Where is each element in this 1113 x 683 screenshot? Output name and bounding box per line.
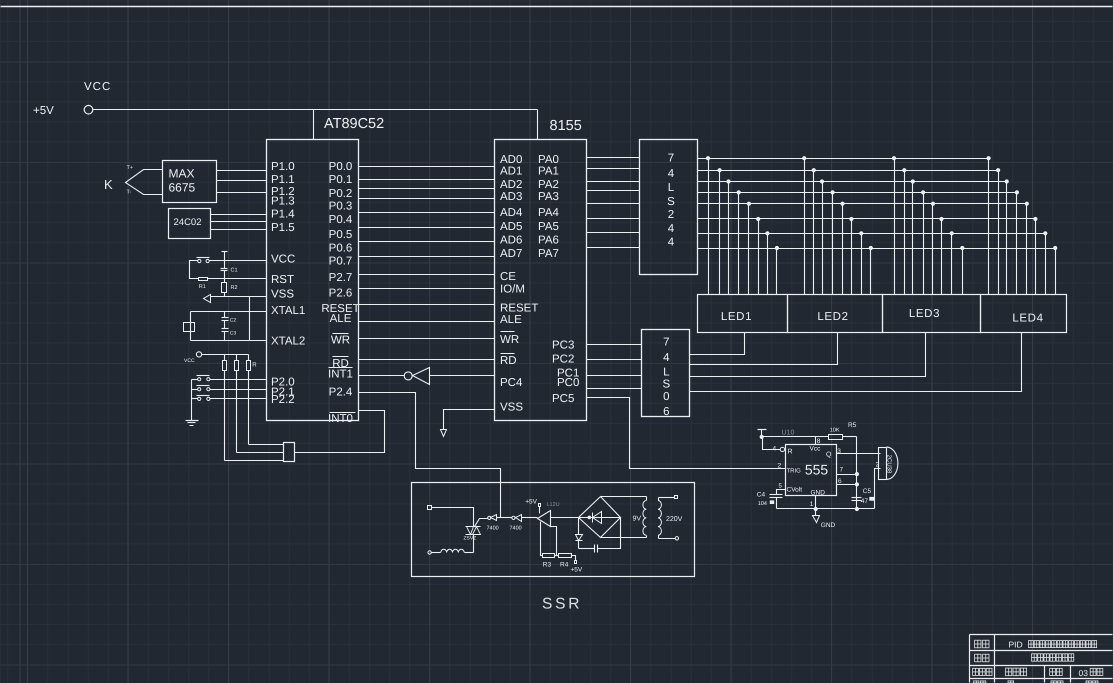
wire R1 to RST: [208, 278, 267, 280]
terminal SSR in1: [428, 506, 432, 510]
svg-text:VCC: VCC: [271, 254, 295, 266]
wire inv2 to opto: [522, 517, 538, 519]
wire VSS pin: [211, 296, 267, 298]
capacitor C3: [224, 321, 226, 329]
capacitor C4: [770, 494, 783, 496]
svg-text:R1: R1: [199, 284, 206, 290]
wire in1 to triac: [432, 508, 474, 527]
svg-text:LED4: LED4: [1012, 312, 1043, 324]
resistor R1: [199, 278, 208, 281]
svg-text:+5V: +5V: [571, 567, 583, 574]
svg-text:4: 4: [663, 352, 670, 364]
wire segment drops row 6: [768, 234, 1046, 295]
wire opto to bridge: [551, 517, 579, 519]
arrow symbol VSS: [204, 295, 211, 303]
capacitor C5: [852, 497, 862, 499]
svg-text:P1.5: P1.5: [271, 222, 295, 234]
svg-text:ALE: ALE: [500, 314, 522, 326]
label 74LS244 vertical: [667, 153, 675, 249]
resistor network R 3x: [223, 361, 251, 371]
svg-text:K: K: [104, 177, 113, 192]
wire P2.6 to IO/M: [359, 288, 495, 290]
svg-text:PA3: PA3: [538, 191, 559, 203]
title row2 label: [975, 654, 981, 662]
title row2 value: [1032, 654, 1074, 661]
buzzer LS1 2CU38: [879, 448, 887, 480]
thermocouple junction symbol: [126, 170, 163, 195]
power VCC tee symbol: [222, 251, 228, 253]
terminal SSR in2: [428, 551, 431, 554]
svg-text:AD1: AD1: [500, 166, 522, 178]
svg-text:AD6: AD6: [500, 235, 522, 247]
pin labels 8155 left column: [500, 154, 538, 414]
terminal 220V bottom: [675, 537, 678, 540]
wire XTAL2 pin: [191, 340, 267, 342]
wire 24C02 to P1.4: [211, 221, 267, 223]
svg-text:PC5: PC5: [552, 393, 574, 405]
wire 74LS06 to LED4 common: [690, 333, 1022, 392]
svg-text:RST: RST: [271, 274, 294, 286]
terminal +5V circle: [84, 105, 93, 114]
wire MAX6675 to P1.1: [217, 180, 267, 182]
svg-text:AD4: AD4: [500, 207, 523, 219]
svg-text:P1.4: P1.4: [271, 209, 295, 221]
wire P0 bus to AD0-AD7: [359, 167, 495, 257]
wire 74LS06 to LED2 common: [690, 333, 838, 365]
wire P2.2 pin: [210, 398, 267, 400]
switch S1 reset: [198, 259, 201, 262]
svg-text:PID: PID: [1009, 640, 1023, 650]
svg-text:PA7: PA7: [538, 248, 559, 260]
switch S3: [198, 388, 201, 391]
svg-text:GND: GND: [821, 522, 836, 529]
wire 74LS244 output row 1: [698, 170, 999, 172]
svg-text:PA4: PA4: [538, 207, 559, 219]
wire WR: [359, 338, 495, 340]
wire gnd rail 555: [777, 508, 875, 510]
svg-text:7: 7: [840, 467, 844, 474]
sensor U2 MAX6675 body: [163, 161, 217, 203]
svg-text:PC2: PC2: [552, 353, 574, 365]
junction dot 555 vcc: [760, 435, 764, 439]
svg-text:+5V: +5V: [525, 499, 537, 506]
eeprom U3 24C02 body: [169, 209, 211, 239]
connector J1 box: [284, 443, 295, 462]
capacitor C2: [224, 312, 226, 318]
svg-text:4: 4: [773, 446, 777, 453]
svg-text:555: 555: [805, 462, 829, 478]
svg-text:INT0: INT0: [328, 413, 353, 425]
diode inside bridge: [593, 512, 602, 524]
title row1 label: [975, 640, 981, 648]
capacitor C6: [594, 545, 596, 553]
svg-text:PA1: PA1: [538, 166, 559, 178]
svg-text:U10: U10: [782, 430, 795, 437]
svg-text:R: R: [788, 449, 793, 456]
svg-text:P0.6: P0.6: [329, 243, 353, 255]
svg-text:PC4: PC4: [500, 377, 523, 389]
wire bridge top to transformer: [601, 496, 647, 498]
display LED4 box: [981, 295, 1067, 333]
wire drops to pullups: [225, 355, 249, 361]
svg-text:T-: T-: [127, 190, 132, 196]
svg-text:SSR: SSR: [542, 596, 582, 613]
svg-text:PA6: PA6: [538, 235, 559, 247]
svg-text:AD5: AD5: [500, 221, 522, 233]
svg-text:R4: R4: [560, 562, 569, 569]
MCU U1 AT89C52 body: [267, 140, 359, 421]
svg-text:+5V: +5V: [33, 105, 54, 117]
svg-text:03: 03: [1079, 668, 1089, 678]
svg-text:VSS: VSS: [500, 402, 523, 414]
svg-text:T+: T+: [127, 165, 134, 171]
triac Q1: [466, 526, 481, 528]
wire segment drops row 4: [749, 204, 1027, 295]
svg-text:RD: RD: [500, 355, 517, 367]
power tee 555: [758, 429, 767, 431]
IO chip U5 8155 body: [495, 140, 587, 421]
svg-text:10K: 10K: [830, 428, 840, 434]
svg-text:C2: C2: [230, 318, 237, 324]
svg-text:VCC: VCC: [184, 358, 195, 364]
wire segment drops row 3: [739, 193, 1017, 295]
svg-text:2: 2: [668, 209, 674, 221]
svg-text:C5: C5: [863, 488, 872, 495]
svg-text:P2.7: P2.7: [329, 272, 353, 284]
svg-text:MAX: MAX: [169, 167, 195, 181]
wire Q output pin 3: [837, 453, 881, 455]
svg-text:RESET: RESET: [500, 302, 538, 314]
wire CVolt to C4: [777, 490, 786, 495]
svg-text:1: 1: [810, 501, 814, 508]
svg-text:7400: 7400: [510, 526, 522, 532]
svg-text:INT1: INT1: [328, 368, 353, 380]
wire secondary bottom: [659, 538, 676, 540]
wire 74LS244 output row 2: [698, 181, 1007, 183]
wire INT0 to connector: [295, 411, 385, 453]
svg-text:S: S: [667, 196, 675, 208]
svg-text:AD3: AD3: [500, 191, 522, 203]
wire P2.4 to SSR: [359, 393, 501, 518]
svg-text:CE: CE: [500, 271, 516, 283]
wire opto to R3: [541, 522, 543, 556]
svg-text:PA2: PA2: [538, 179, 559, 191]
svg-text:CVolt: CVolt: [787, 486, 803, 493]
svg-text:AD7: AD7: [500, 248, 522, 260]
capacitor C1: [224, 261, 226, 269]
opto transistor triangle: [538, 511, 551, 527]
svg-text:P1.0: P1.0: [271, 161, 295, 173]
wire VSS junction down: [249, 297, 251, 341]
inverter U9 7400: [512, 516, 515, 519]
svg-text:3: 3: [837, 448, 841, 455]
svg-text:R3: R3: [543, 562, 552, 569]
wire triac gate: [475, 519, 488, 527]
wire segment drops row 7: [777, 249, 1056, 295]
resistor R3: [543, 554, 555, 558]
wire segment drops row 2: [729, 182, 1007, 295]
svg-text:L: L: [668, 182, 675, 194]
svg-text:PA5: PA5: [538, 221, 559, 233]
wire buzzer return: [875, 469, 881, 509]
wire segment drops row 5: [759, 219, 1036, 295]
crystal Y1: [190, 312, 192, 341]
svg-text:LED3: LED3: [909, 308, 940, 320]
svg-text:220V: 220V: [666, 516, 683, 523]
svg-text:5: 5: [779, 482, 783, 489]
wire 74LS244 output row 7: [698, 248, 1056, 250]
svg-text:4: 4: [668, 168, 675, 180]
wire ALE: [359, 321, 495, 323]
svg-text:TRIG: TRIG: [787, 467, 802, 474]
wire RD: [359, 359, 495, 361]
svg-text:P1.3: P1.3: [271, 196, 295, 208]
drawing frame top border: [1, 6, 1113, 8]
switch S4: [198, 397, 201, 400]
svg-text:P0.3: P0.3: [329, 201, 353, 213]
wire VCC pin: [210, 260, 267, 262]
pin labels AT89C52 left column: [271, 161, 305, 406]
ground arrow 8155 VSS: [444, 410, 495, 430]
wire R4 to +5V: [572, 556, 576, 561]
svg-text:P2.2: P2.2: [271, 394, 295, 406]
svg-text:C1: C1: [231, 267, 238, 273]
svg-text:8: 8: [817, 438, 821, 445]
wire bridge bottom to transformer: [601, 537, 647, 539]
wire VCC drop to AT89C52: [313, 110, 315, 140]
wire 74LS244 output row 4: [698, 203, 1027, 205]
wire pullup rail: [202, 354, 249, 356]
title row3 label2: [1050, 668, 1056, 675]
svg-text:4: 4: [668, 223, 675, 235]
wire 74LS06 to LED1 common: [690, 333, 745, 355]
svg-text:C4: C4: [757, 492, 766, 499]
resistor R5 10K: [829, 435, 843, 440]
transformer T1 primary: [646, 497, 648, 501]
terminal 220V top: [675, 496, 678, 499]
svg-text:XTAL1: XTAL1: [271, 305, 305, 317]
display LED3 box: [883, 295, 981, 333]
wire 74LS244 output row 3: [698, 192, 1017, 194]
svg-text:4: 4: [668, 236, 675, 248]
inverter U4 on INT1: [359, 375, 405, 377]
pin 4 bubble: [780, 447, 784, 451]
junction dots row 1: [718, 168, 1001, 172]
diode D5 freewheel: [578, 518, 580, 535]
wire switches common: [192, 379, 198, 381]
svg-text:R: R: [252, 362, 257, 369]
label 74LS06 vertical: [662, 337, 670, 419]
svg-text:PA0: PA0: [538, 154, 559, 166]
svg-text:GND: GND: [811, 490, 826, 497]
inverter U8 7400: [488, 516, 491, 519]
wire reset branch: [763, 437, 781, 450]
junction dots row 2: [726, 179, 1008, 183]
wire 555 vcc rail: [762, 436, 829, 438]
junction dots row 7: [775, 246, 1057, 250]
svg-text:7: 7: [663, 337, 669, 349]
resistor R2: [224, 279, 226, 283]
display LED1 box: [698, 295, 788, 333]
svg-text:L12U: L12U: [547, 502, 560, 508]
svg-text:WR: WR: [331, 335, 350, 347]
timer U10 555 body: [786, 445, 837, 496]
svg-text:P0.5: P0.5: [329, 229, 353, 241]
title row3 label: [973, 668, 979, 675]
svg-text:XTAL2: XTAL2: [271, 336, 305, 348]
svg-text:AD2: AD2: [500, 179, 522, 191]
junction dots row 3: [737, 190, 1019, 194]
wire pin 7: [837, 474, 857, 476]
svg-text:L: L: [663, 367, 670, 379]
transformer T1 secondary: [658, 498, 660, 501]
ground symbol 555: [815, 509, 817, 516]
wire pullup verticals down: [224, 371, 226, 461]
wire MAX6675 to P1.0: [217, 170, 267, 172]
inductor L1 coil: [432, 552, 441, 554]
title row4 partial: [974, 681, 979, 683]
wire 74LS244 output row 5: [698, 218, 1036, 220]
wire segment drops row 0: [709, 159, 989, 295]
resistor R4: [559, 554, 572, 558]
wire switch to R1: [190, 261, 199, 279]
wire P2.0 pin: [210, 379, 267, 381]
svg-text:VCC: VCC: [84, 81, 111, 93]
wire XTAL1 pin: [191, 311, 267, 313]
svg-text:0: 0: [663, 391, 669, 403]
wire 24C02 to P1.5: [211, 229, 267, 231]
svg-text:VSS: VSS: [271, 289, 294, 301]
ground symbol switches: [186, 420, 199, 422]
wire VCC drop to 8155: [537, 110, 539, 140]
svg-text:C3: C3: [230, 331, 237, 337]
svg-text:AD0: AD0: [500, 154, 522, 166]
svg-text:104: 104: [758, 501, 767, 507]
svg-text:P2.6: P2.6: [329, 288, 353, 300]
terminal VCC circle pullups: [196, 352, 201, 357]
wire pin 6: [837, 484, 857, 486]
svg-text:6675: 6675: [169, 181, 196, 195]
wire MAX6675 to P1.2: [217, 192, 267, 194]
svg-text:P0.7: P0.7: [329, 256, 353, 268]
svg-text:AT89C52: AT89C52: [324, 116, 384, 132]
svg-text:R5: R5: [848, 422, 857, 429]
svg-text:P0.1: P0.1: [329, 174, 353, 186]
svg-text:2: 2: [778, 462, 782, 469]
wire segment drops row 1: [720, 171, 999, 295]
wire PC3 to 74LS06: [587, 344, 642, 346]
wire PC1 to 74LS06: [587, 375, 642, 377]
wire pullups to connector: [225, 460, 284, 462]
wire R3 R4 node: [555, 555, 559, 557]
svg-text:7: 7: [668, 153, 674, 165]
pin labels 8155 right column: [538, 154, 579, 405]
pin 1 stem: [815, 496, 817, 509]
driver U7 74LS06 body: [642, 330, 690, 417]
svg-text:P0.2: P0.2: [329, 188, 353, 200]
wire P2.7 to CE: [359, 274, 495, 276]
junction dots row 5: [756, 217, 1037, 221]
svg-text:9V: 9V: [633, 516, 642, 523]
display LED2 box: [788, 295, 883, 333]
wire D5 to C6: [579, 548, 595, 550]
svg-text:Vcc: Vcc: [810, 446, 822, 453]
svg-text:PC3: PC3: [552, 340, 574, 352]
svg-text:Q: Q: [826, 452, 832, 459]
title row3 value name: [1006, 668, 1012, 676]
wire C6 to bridge right: [598, 518, 621, 549]
wire R5 to vertical: [843, 436, 857, 438]
wire 24C02 to P1.3: [211, 214, 267, 216]
wire secondary top: [659, 497, 675, 499]
wire RESET: [359, 304, 495, 306]
wire 74LS244 output row 0: [698, 158, 989, 160]
svg-text:P1.1: P1.1: [271, 174, 295, 186]
SSR box: [412, 483, 695, 577]
wire 74LS244 output row 6: [698, 233, 1046, 235]
svg-text:S: S: [662, 379, 670, 391]
svg-text:24C02: 24C02: [174, 217, 202, 228]
svg-text:WR: WR: [500, 334, 519, 346]
wire inv1 to inv2: [497, 517, 512, 519]
svg-text:P0.4: P0.4: [329, 214, 353, 226]
pin 8 stem: [815, 437, 817, 445]
bridge rectifier D1-D4: [579, 497, 621, 538]
svg-text:ALE: ALE: [330, 313, 352, 325]
wire 74LS06 to LED3 common: [690, 333, 926, 377]
svg-text:P0.0: P0.0: [329, 161, 353, 173]
terminal +5V opto: [539, 504, 541, 507]
svg-text:IO/M: IO/M: [500, 284, 525, 296]
wire PC0 to 74LS06: [587, 388, 642, 390]
wire PC5 to 555 TRIG: [587, 398, 786, 469]
wire P2.1 pin: [210, 389, 267, 391]
svg-text:6: 6: [838, 478, 842, 485]
svg-text:LED2: LED2: [817, 311, 848, 323]
junction dots row 4: [747, 202, 1029, 206]
junction dots row 6: [765, 231, 1047, 235]
junction dots row 0: [706, 156, 991, 160]
switch S2: [198, 378, 201, 381]
svg-text:LED1: LED1: [721, 311, 752, 323]
wire right vertical 555: [856, 437, 858, 509]
svg-text:7400: 7400: [487, 526, 499, 532]
labels 555 pins inside: [787, 446, 833, 497]
wire +5V rail: [93, 109, 538, 111]
wire triac to coil: [473, 535, 475, 553]
svg-text:8155: 8155: [550, 118, 582, 134]
wire PA bus 8155 to 74LS244: [587, 158, 640, 248]
wire PC2 to 74LS06: [587, 359, 642, 361]
svg-text:47: 47: [861, 498, 869, 505]
pin labels AT89C52 right column: [321, 161, 359, 425]
svg-text:6: 6: [663, 406, 669, 418]
terminal +5V R4: [575, 561, 577, 564]
svg-text:PC0: PC0: [557, 377, 579, 389]
svg-text:R2: R2: [231, 285, 238, 291]
buffer U6 74LS244 body: [640, 140, 698, 275]
svg-text:2CU38: 2CU38: [886, 455, 893, 474]
svg-text:ZSVZ: ZSVZ: [464, 536, 477, 542]
title block table: [970, 635, 1113, 683]
svg-text:P2.4: P2.4: [329, 387, 353, 399]
